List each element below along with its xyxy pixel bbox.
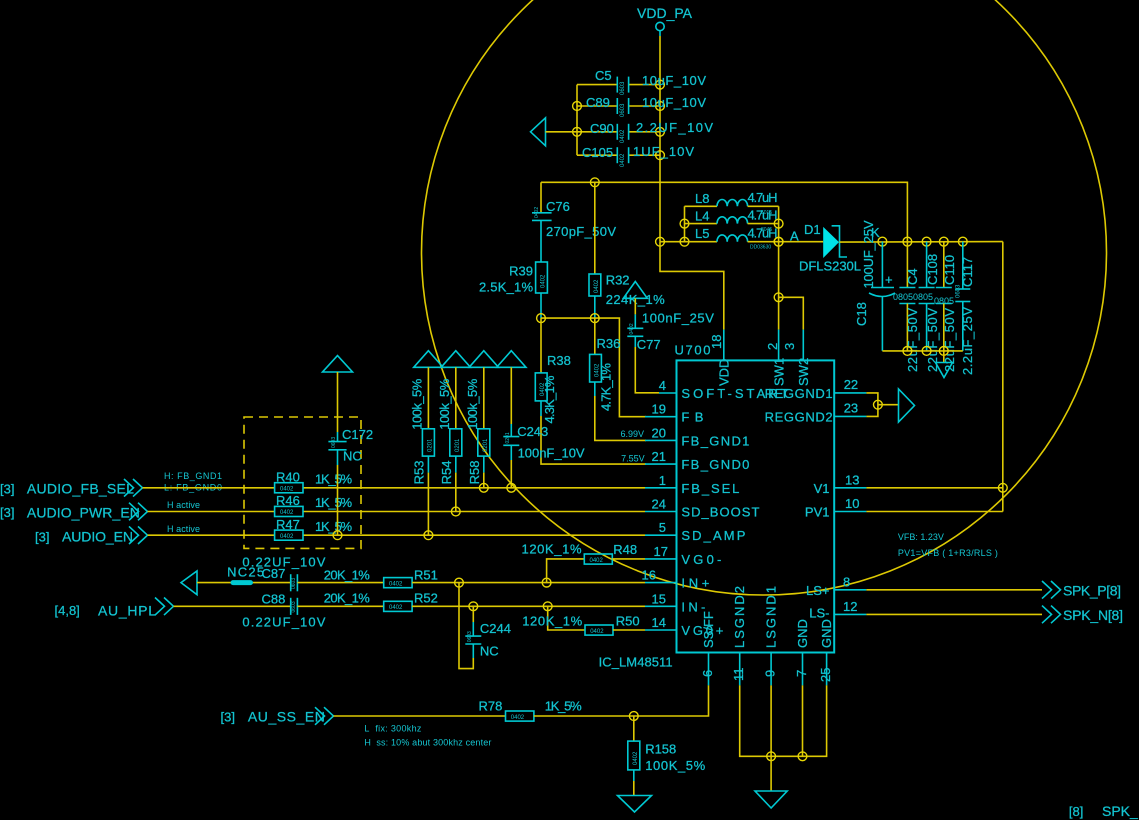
inductor L8 — [685, 190, 779, 216]
power arrow right (REGGND) — [899, 389, 915, 422]
svg-text:R32: R32 — [606, 273, 630, 288]
IC U700 body — [677, 360, 835, 652]
wire C90 row — [577, 131, 617, 133]
svg-text:0603: 0603 — [620, 103, 626, 117]
svg-text:7.55V: 7.55V — [621, 454, 645, 464]
svg-text:0805: 0805 — [893, 292, 913, 302]
svg-text:LS-: LS- — [809, 606, 829, 621]
pin 12 LS- output — [834, 599, 1042, 614]
svg-text:LS+: LS+ — [806, 583, 830, 598]
svg-text:C90: C90 — [590, 121, 614, 136]
resistor R48 — [522, 542, 646, 583]
svg-text:[8]: [8] — [1069, 804, 1083, 819]
svg-text:0402: 0402 — [511, 715, 525, 721]
svg-text:0402: 0402 — [629, 323, 635, 334]
svg-text:0201: 0201 — [427, 438, 433, 452]
svg-text:9: 9 — [763, 670, 778, 677]
svg-text:1K_5%: 1K_5% — [315, 472, 352, 487]
svg-text:SPK_P[8]: SPK_P[8] — [1063, 583, 1121, 599]
capacitor C76 — [532, 182, 616, 262]
port AUDIO_EN — [35, 526, 148, 544]
resistor R36 — [590, 318, 646, 440]
svg-text:25: 25 — [818, 668, 833, 682]
svg-text:100k_5%: 100k_5% — [465, 378, 480, 429]
svg-text:R53: R53 — [412, 461, 427, 485]
pin names right column — [765, 386, 833, 621]
svg-text:NC: NC — [480, 644, 499, 659]
node junctions on VDD line — [656, 80, 665, 89]
pin 13 V1 wire — [834, 473, 1007, 493]
capacitor C77 — [627, 298, 714, 393]
svg-text:R38: R38 — [547, 353, 571, 368]
svg-text:19: 19 — [652, 402, 666, 417]
wire R52 to IN- — [412, 605, 645, 607]
wire SD_AMP row — [148, 534, 275, 536]
power arrow above C77 — [623, 282, 647, 299]
svg-text:C76: C76 — [546, 199, 570, 214]
svg-text:V1: V1 — [814, 481, 830, 496]
capacitor C110 — [934, 242, 957, 372]
pin 22 REGGND1 — [834, 392, 866, 394]
svg-text:NC: NC — [343, 449, 362, 464]
svg-text:1K_5%: 1K_5% — [315, 495, 352, 510]
svg-text:GND: GND — [795, 619, 810, 648]
power arrow left (cap bank) — [531, 118, 578, 146]
svg-text:VDD_PA: VDD_PA — [637, 5, 693, 21]
svg-text:20: 20 — [652, 425, 666, 440]
ground (LSGND) — [755, 756, 787, 808]
svg-text:15: 15 — [652, 591, 666, 606]
capacitor C18 electrolytic — [854, 220, 895, 351]
svg-text:VFB: 1.23V: VFB: 1.23V — [898, 532, 944, 542]
pin names left column — [681, 386, 788, 638]
wire AU_SS_EN row — [334, 715, 506, 717]
node rings on cathode rail — [878, 237, 887, 246]
power port VDD_PA — [637, 5, 693, 36]
svg-text:120K_1%: 120K_1% — [522, 614, 582, 629]
svg-text:3: 3 — [782, 343, 797, 350]
svg-text:20K_1%: 20K_1% — [324, 591, 370, 606]
svg-text:C88: C88 — [262, 592, 286, 607]
svg-text:R50: R50 — [616, 614, 640, 629]
svg-text:22: 22 — [844, 377, 858, 392]
svg-text:100UF_25V: 100UF_25V — [861, 220, 876, 288]
resistor R51 — [324, 567, 438, 587]
svg-text:R47: R47 — [276, 517, 300, 532]
pin 10 PV1 wire — [834, 496, 1003, 511]
net tie NC25 — [233, 580, 251, 585]
svg-text:C89: C89 — [586, 95, 610, 110]
wire FB_SEL row — [143, 487, 275, 489]
svg-text:0402: 0402 — [633, 751, 639, 765]
svg-text:[3]: [3] — [221, 710, 235, 725]
wire feedback node row — [541, 318, 646, 417]
svg-text:R78: R78 — [479, 699, 503, 714]
svg-text:SW2: SW2 — [796, 358, 811, 386]
pin names bottom rotated — [701, 586, 834, 648]
wire LSGND rail — [740, 685, 827, 756]
svg-text:20K_1%: 20K_1% — [324, 567, 370, 582]
dashed option box — [244, 417, 361, 548]
svg-text:10uF_10V: 10uF_10V — [642, 73, 706, 88]
capacitor C243 — [503, 367, 585, 488]
ground (cap bank) — [936, 351, 953, 378]
capacitor C105 — [582, 144, 694, 167]
svg-text:0603: 0603 — [620, 81, 626, 95]
capacitor C117 — [955, 242, 975, 375]
pin 18 stub — [723, 330, 725, 361]
svg-text:4.3K_1%: 4.3K_1% — [542, 375, 557, 423]
svg-text:SPK_N[8]: SPK_N[8] — [1063, 607, 1123, 623]
svg-text:R58: R58 — [467, 461, 482, 485]
svg-text:24: 24 — [652, 497, 666, 512]
wire top rail (boost output) — [541, 182, 907, 241]
svg-text:AU_SS_EN: AU_SS_EN — [248, 709, 325, 725]
wire REGGND tie — [866, 393, 878, 417]
wire cap bank bottom rail — [882, 350, 962, 352]
svg-text:21: 21 — [652, 449, 666, 464]
resistor R50 — [522, 606, 645, 635]
svg-text:23: 23 — [844, 401, 858, 416]
svg-text:0402: 0402 — [389, 581, 403, 587]
svg-text:4.7uH: 4.7uH — [748, 208, 778, 223]
svg-text:120K_1%: 120K_1% — [522, 542, 582, 557]
svg-text:10: 10 — [845, 496, 859, 511]
wire cap bus left — [576, 85, 578, 156]
capacitor C90 — [590, 120, 713, 143]
svg-text:14: 14 — [652, 615, 666, 630]
resistor R158 — [628, 716, 706, 795]
left pin stubs — [645, 393, 677, 630]
svg-text:100k_5%: 100k_5% — [410, 378, 425, 429]
svg-text:PV1: PV1 — [805, 505, 830, 520]
svg-text:0402: 0402 — [541, 274, 547, 288]
svg-text:16: 16 — [642, 568, 656, 583]
svg-text:100K_5%: 100K_5% — [645, 758, 705, 773]
svg-text:0603: 0603 — [331, 437, 337, 448]
port AU_HPL — [55, 598, 174, 619]
diode D1 DFLS230L — [790, 222, 880, 274]
resistor R54 — [437, 367, 462, 511]
svg-text:R158: R158 — [645, 742, 676, 757]
wire R78 to pin 6 — [534, 685, 709, 716]
capacitor C87 — [242, 555, 325, 592]
wire C88 to R52 — [297, 605, 383, 607]
svg-text:18: 18 — [709, 335, 724, 349]
resistor R32 — [589, 182, 665, 318]
svg-text:AUDIO_FB_SEL: AUDIO_FB_SEL — [27, 481, 134, 497]
svg-text:1UF_10V: 1UF_10V — [633, 144, 694, 159]
svg-text:VDD: VDD — [717, 359, 732, 386]
power arrows row (pullups) — [414, 351, 526, 368]
svg-text:FB_GND1: FB_GND1 — [681, 433, 749, 448]
wire C89 row — [577, 105, 617, 107]
highlight circle — [422, 0, 1107, 595]
svg-text:R51: R51 — [414, 567, 438, 582]
svg-text:L5: L5 — [695, 226, 709, 241]
svg-text:7: 7 — [794, 670, 809, 677]
resistor R39 — [479, 262, 547, 318]
svg-text:[4,8]: [4,8] — [55, 603, 80, 618]
svg-text:0402: 0402 — [389, 605, 403, 611]
svg-text:0402: 0402 — [620, 153, 626, 167]
svg-text:DFLS230L: DFLS230L — [799, 259, 861, 274]
inductor L5 — [685, 226, 779, 251]
port AU_SS_EN — [221, 707, 334, 725]
wire SD_BOOST row — [148, 511, 275, 513]
svg-text:8: 8 — [843, 575, 850, 590]
port AUDIO_PWR_EN — [0, 503, 148, 521]
svg-text:FB_GND0: FB_GND0 — [681, 457, 749, 472]
svg-text:R46: R46 — [276, 493, 300, 508]
node C172 row — [333, 531, 342, 540]
svg-text:4: 4 — [659, 378, 666, 393]
svg-text:R52: R52 — [414, 591, 438, 606]
svg-text:0603: 0603 — [467, 631, 473, 642]
svg-text:4.7uH: 4.7uH — [748, 190, 778, 205]
resistor R38 — [535, 318, 646, 464]
pin 8 LS+ output — [834, 575, 1042, 590]
svg-text:C172: C172 — [342, 427, 373, 442]
wire VDD to pin 18 — [660, 242, 724, 330]
svg-text:6: 6 — [700, 670, 715, 677]
off-page connector SPK_P[8] — [1042, 581, 1121, 599]
svg-text:0201: 0201 — [505, 432, 511, 443]
svg-text:0603: 0603 — [291, 578, 297, 589]
svg-text:0.22UF_10V: 0.22UF_10V — [242, 615, 325, 630]
svg-text:A: A — [790, 229, 799, 244]
svg-text:U700: U700 — [675, 343, 711, 358]
svg-text:PV1=VFB ( 1+R3/RLS ): PV1=VFB ( 1+R3/RLS ) — [898, 548, 998, 558]
svg-text:AUDIO_PWR_EN: AUDIO_PWR_EN — [27, 504, 140, 520]
svg-text:REGGND1: REGGND1 — [765, 386, 833, 401]
svg-text:22uF_50V: 22uF_50V — [905, 308, 920, 372]
svg-text:0603: 0603 — [291, 601, 297, 612]
power arrow left (NC25) — [181, 571, 197, 595]
ground (R158) — [618, 796, 652, 813]
resistor R53 — [410, 367, 435, 535]
svg-text:H ss: 10% abut 300khz center: H ss: 10% abut 300khz center — [364, 738, 491, 748]
wire diode cathode rail — [840, 241, 1003, 244]
resistor R46 — [275, 493, 353, 516]
svg-text:12: 12 — [843, 599, 857, 614]
svg-text:H active: H active — [167, 500, 200, 510]
left pin numbers — [642, 378, 668, 630]
svg-text:5: 5 — [659, 520, 666, 535]
inductor L4 — [685, 208, 779, 234]
svg-text:SW1: SW1 — [771, 358, 786, 386]
inductor bus right — [778, 206, 780, 241]
resistor R40 — [275, 470, 353, 493]
svg-text:C243: C243 — [517, 424, 548, 439]
svg-text:0.22UF_10V: 0.22UF_10V — [242, 555, 325, 570]
svg-text:0402: 0402 — [534, 207, 540, 218]
svg-text:C108: C108 — [925, 254, 940, 285]
svg-text:H active: H active — [167, 524, 200, 534]
svg-text:R48: R48 — [613, 542, 637, 557]
svg-text:C5: C5 — [595, 68, 612, 83]
svg-text:100k_5%: 100k_5% — [437, 378, 452, 429]
pin 23 REGGND2 — [834, 415, 866, 417]
wire VDD_PA vertical — [659, 36, 661, 242]
node junctions on cap bus — [573, 102, 582, 111]
svg-text:0402: 0402 — [280, 487, 294, 493]
svg-text:C244: C244 — [480, 621, 511, 636]
wire R51 to IN+ — [412, 582, 645, 584]
resistor R78 — [479, 699, 583, 722]
svg-text:0402: 0402 — [590, 558, 604, 564]
svg-text:C110: C110 — [942, 255, 957, 285]
pin 2 stub — [778, 330, 780, 361]
svg-text:C18: C18 — [854, 302, 869, 326]
off-page connector SPK_N[8] — [1042, 606, 1123, 624]
port AUDIO_FB_SEL — [0, 479, 143, 497]
capacitor C172 — [323, 356, 374, 536]
capacitor C89 — [586, 95, 706, 117]
svg-text:4.7uH: 4.7uH — [748, 226, 778, 241]
capacitor C108 — [913, 242, 940, 372]
svg-text:100nF_25V: 100nF_25V — [642, 311, 714, 326]
svg-text:H: FB_GND1: H: FB_GND1 — [164, 471, 222, 481]
resistor R58 — [465, 367, 490, 488]
svg-text:C105: C105 — [582, 145, 613, 160]
capacitor C88 — [242, 592, 325, 630]
svg-text:100nF_10V: 100nF_10V — [518, 446, 585, 461]
svg-text:L fix: 300khz: L fix: 300khz — [364, 724, 422, 734]
capacitor C4 — [893, 242, 920, 372]
capacitor C5 — [595, 68, 706, 95]
wire rail corner to V1 — [1002, 242, 1004, 512]
svg-text:+: + — [885, 272, 893, 287]
svg-text:[3]: [3] — [0, 482, 14, 497]
svg-text:C117: C117 — [960, 257, 975, 287]
svg-text:2.2uF_25V: 2.2uF_25V — [960, 307, 975, 375]
svg-text:1: 1 — [659, 473, 666, 488]
svg-text:R54: R54 — [439, 461, 454, 485]
svg-text:17: 17 — [654, 544, 668, 559]
svg-text:0402: 0402 — [594, 279, 600, 293]
svg-text:AUDIO_EN: AUDIO_EN — [62, 529, 133, 545]
resistor R47 — [275, 517, 353, 540]
wire C87 to R51 — [297, 582, 383, 584]
svg-text:270pF_50V: 270pF_50V — [546, 224, 616, 239]
svg-text:2.5K_1%: 2.5K_1% — [479, 280, 533, 295]
svg-text:[3]: [3] — [0, 505, 14, 520]
pin 3 stub — [802, 330, 804, 361]
svg-text:0805: 0805 — [934, 296, 954, 306]
svg-text:SPK_: SPK_ — [1102, 803, 1138, 819]
svg-text:6.99V: 6.99V — [620, 429, 644, 439]
svg-text:[3]: [3] — [35, 530, 49, 545]
svg-text:R40: R40 — [276, 470, 300, 485]
wire NC25 row — [197, 582, 291, 584]
svg-text:0201: 0201 — [455, 438, 461, 452]
wire C5 row — [577, 84, 617, 86]
svg-text:L8: L8 — [695, 191, 709, 206]
svg-text:4.7K_1%: 4.7K_1% — [599, 363, 614, 411]
svg-text:D1: D1 — [804, 222, 821, 237]
svg-text:11: 11 — [731, 668, 746, 682]
svg-text:C77: C77 — [637, 337, 661, 352]
wire C105 row — [577, 154, 617, 156]
wire AU_HPL row — [174, 605, 291, 607]
svg-text:DD03630: DD03630 — [750, 245, 771, 251]
svg-text:REGGND2: REGGND2 — [765, 410, 833, 425]
bottom pin stubs 6 11 9 7 25 — [709, 653, 827, 686]
node anode branch — [774, 237, 783, 246]
capacitor C244 — [459, 583, 511, 669]
svg-text:0201: 0201 — [483, 438, 489, 452]
svg-text:SS/FF: SS/FF — [701, 611, 716, 648]
svg-text:1K_5%: 1K_5% — [315, 519, 352, 534]
svg-text:13: 13 — [845, 473, 859, 488]
svg-text:0805: 0805 — [913, 292, 933, 302]
inductor bus left — [660, 241, 685, 243]
svg-text:GND: GND — [819, 619, 834, 648]
svg-text:0402: 0402 — [590, 629, 604, 635]
svg-text:0402: 0402 — [280, 510, 294, 516]
svg-text:2: 2 — [765, 343, 780, 350]
resistor R52 — [324, 591, 438, 612]
wire L out to diode — [779, 241, 824, 243]
wire SW node branch — [778, 242, 780, 330]
svg-text:0402: 0402 — [620, 129, 626, 143]
svg-text:R39: R39 — [509, 264, 533, 279]
svg-text:10uF_10V: 10uF_10V — [642, 95, 706, 110]
svg-text:2.2UF_10V: 2.2UF_10V — [636, 120, 713, 135]
svg-text:IC_LM48511: IC_LM48511 — [599, 655, 673, 670]
svg-text:SD_BOOST: SD_BOOST — [681, 505, 759, 520]
svg-text:1K_5%: 1K_5% — [545, 699, 582, 714]
node rail/R32 — [590, 178, 599, 187]
bottom pin numbers rotated — [700, 668, 833, 683]
svg-text:R36: R36 — [597, 336, 621, 351]
svg-text:0402: 0402 — [280, 534, 294, 540]
svg-text:AU_HPL: AU_HPL — [98, 602, 156, 618]
svg-text:C4: C4 — [905, 268, 920, 285]
svg-text:L4: L4 — [695, 209, 709, 224]
